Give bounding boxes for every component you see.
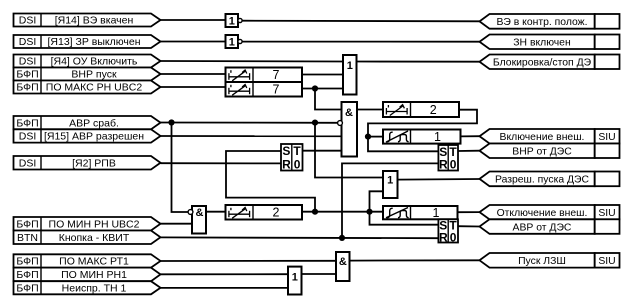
svg-text:ПО МАКС РН UBC2: ПО МАКС РН UBC2 bbox=[46, 82, 143, 94]
junction node T3-out bbox=[365, 134, 371, 140]
input flag I2: DSI [Я13] ЗР выключен bbox=[14, 35, 161, 48]
wire Неиспр. ТН1 to OR D7 bbox=[161, 287, 289, 289]
input flag I10: BTN Кнопка - КВИТ bbox=[14, 231, 161, 245]
wire T4-out down to DT3 S bbox=[370, 212, 439, 225]
input flag I4: БФП ВНР пуск bbox=[14, 68, 161, 81]
wire DT2 out to AND D4 in4 bbox=[303, 150, 342, 152]
wire OR D6 to Разреш. пуска ДЭС bbox=[398, 178, 480, 181]
svg-text:R: R bbox=[282, 158, 291, 172]
svg-text:БФП: БФП bbox=[16, 117, 38, 129]
wire АВР сраб. to OR D6 in1 bbox=[315, 123, 383, 178]
timer block T1: t=7 bbox=[226, 68, 303, 83]
input flag I9: БФП ПО МИН РН UBC2 bbox=[14, 217, 161, 231]
junction node T4-out B bbox=[366, 209, 372, 215]
svg-text:АВР сраб.: АВР сраб. bbox=[69, 117, 119, 129]
wire T3 output loop to pulse P1 bbox=[368, 110, 477, 152]
timer block T4: t=2 bbox=[226, 205, 303, 220]
OR gate D6 bbox=[383, 171, 398, 198]
input flag I7: DSI [Я15] АВР разрешен bbox=[14, 129, 161, 142]
svg-text:S: S bbox=[282, 144, 290, 158]
NOT gate D1 bbox=[226, 14, 239, 28]
output flag O7: Отключение внеш. bbox=[480, 205, 620, 219]
wire T4-out up to OR D6 in2 bbox=[370, 191, 384, 211]
svg-text:БФП: БФП bbox=[16, 269, 38, 281]
svg-text:DSI: DSI bbox=[19, 56, 37, 68]
svg-text:[Я15] АВР разрешен: [Я15] АВР разрешен bbox=[44, 131, 144, 143]
svg-text:ПО МИН РН1: ПО МИН РН1 bbox=[61, 269, 127, 281]
svg-text:7: 7 bbox=[273, 68, 280, 82]
wire DT1 out to ВНР от ДЭС bbox=[458, 150, 480, 152]
wire АВР сраб. to AND D4 bubble bbox=[161, 122, 339, 124]
RS flip-flop DT3 bbox=[438, 219, 458, 245]
svg-text:0: 0 bbox=[450, 230, 457, 244]
wire OR1 to Блокировка/стоп ДЭ bbox=[357, 61, 480, 63]
inversion bubble AND D4 inverted input bbox=[338, 121, 343, 126]
svg-text:Включение внеш.: Включение внеш. bbox=[500, 132, 585, 143]
svg-text:БФП: БФП bbox=[16, 69, 38, 81]
svg-text:Блокировка/стоп ДЭ: Блокировка/стоп ДЭ bbox=[493, 58, 592, 69]
junction node T2-out branch bbox=[312, 85, 318, 91]
svg-text:ЗН включен: ЗН включен bbox=[513, 38, 571, 49]
output flag O2: ЗН включен bbox=[480, 35, 620, 50]
svg-text:2: 2 bbox=[430, 103, 437, 117]
input flag I12: БФП ПО МИН РН1 bbox=[14, 268, 161, 282]
svg-text:1: 1 bbox=[229, 37, 235, 49]
svg-text:2: 2 bbox=[273, 206, 280, 220]
svg-text:БФП: БФП bbox=[16, 256, 38, 268]
input flag I8: DSI [Я2] РПВ bbox=[14, 156, 161, 170]
AND gate D4 bbox=[342, 102, 358, 157]
svg-text:0: 0 bbox=[450, 158, 457, 172]
svg-text:SIU: SIU bbox=[598, 208, 615, 219]
wire КВИТ up to DT1 R bbox=[342, 163, 438, 238]
wire OR D7 to AND D8 bbox=[302, 273, 337, 275]
timer block T2: t=7 bbox=[226, 82, 303, 97]
inversion bubble NOT D2 output bbox=[238, 39, 242, 43]
wire ПО МАКС РТ1 to AND D8 bbox=[161, 260, 337, 262]
wire DT3 out to АВР от ДЭС bbox=[458, 225, 480, 227]
wire T3-out to P1 input bbox=[368, 136, 383, 138]
svg-text:1: 1 bbox=[292, 272, 298, 284]
svg-text:DSI: DSI bbox=[19, 131, 37, 143]
wire T2-out down to AND D4 in1 bbox=[315, 89, 342, 110]
pulse former block P1: 1 bbox=[383, 130, 461, 145]
wire NOT1 to ВЭ в контр.полож. bbox=[242, 20, 479, 23]
wire ПО МИН РН1 to OR D7 bbox=[161, 273, 289, 275]
svg-text:БФП: БФП bbox=[16, 282, 38, 294]
input flag I1: DSI [Я14] ВЭ вкачен bbox=[14, 14, 161, 27]
svg-text:[Я4] ОУ Включить: [Я4] ОУ Включить bbox=[51, 56, 138, 68]
wire ПО МИН РН UBC2 to AND D5 bbox=[161, 223, 193, 225]
output flag O4: Включение внеш. bbox=[480, 129, 620, 144]
input flag I3: DSI [Я4] ОУ Включить bbox=[14, 55, 161, 68]
wire AND D5 to timer T4 bbox=[206, 211, 226, 213]
svg-text:[Я2] РПВ: [Я2] РПВ bbox=[72, 157, 116, 169]
svg-text:DSI: DSI bbox=[19, 157, 37, 169]
svg-text:АВР от ДЭС: АВР от ДЭС bbox=[513, 222, 572, 233]
wire T2 to OR1 bbox=[302, 88, 343, 90]
output flag O6: Разреш. пуска ДЭС bbox=[480, 172, 620, 187]
junction node АВР сраб. A bbox=[168, 119, 174, 125]
OR gate D3 bbox=[343, 55, 357, 95]
input flag I6: БФП АВР сраб. bbox=[14, 116, 161, 129]
svg-text:Отключение внеш.: Отключение внеш. bbox=[497, 208, 588, 219]
OR gate D7 bbox=[288, 267, 302, 295]
wire T1 to OR1 bbox=[302, 74, 343, 76]
inversion bubble AND D5 inverted input bbox=[188, 210, 193, 215]
RS flip-flop DT2 bbox=[281, 144, 303, 172]
wire ВНР пуск to timer T1 bbox=[161, 73, 226, 75]
svg-text:R: R bbox=[439, 230, 448, 244]
svg-text:&: & bbox=[345, 107, 353, 119]
svg-text:[Я13] ЗР выключен: [Я13] ЗР выключен bbox=[48, 36, 141, 48]
wire DT2 S net bbox=[226, 151, 315, 212]
svg-text:7: 7 bbox=[273, 83, 280, 97]
wire AND D4 to timer T3 bbox=[357, 109, 383, 111]
AND gate D5 bbox=[192, 206, 206, 234]
wire Кнопка-КВИТ to DT3 R bbox=[161, 236, 439, 239]
wire АВР разрешен to AND D4 in3 bbox=[161, 135, 342, 137]
wire ВЭ вкачен to NOT1 bbox=[161, 19, 226, 21]
NOT gate D2 bbox=[226, 35, 239, 49]
wire T4 out to pulse P2 bbox=[302, 211, 383, 213]
svg-text:ВНР от ДЭС: ВНР от ДЭС bbox=[512, 147, 572, 158]
svg-text:ВЭ в контр. полож.: ВЭ в контр. полож. bbox=[496, 17, 587, 28]
wire ЗР выключен to NOT2 bbox=[161, 41, 226, 43]
inversion bubble NOT D1 output bbox=[238, 18, 242, 22]
svg-text:[Я14] ВЭ вкачен: [Я14] ВЭ вкачен bbox=[55, 15, 134, 27]
svg-text:DSI: DSI bbox=[19, 15, 37, 27]
input flag I5: БФП ПО МАКС РН UBC2 bbox=[14, 81, 161, 94]
wire ОУ Включить to OR1 bbox=[161, 60, 344, 63]
input flag I11: БФП ПО МАКС РТ1 bbox=[14, 254, 161, 267]
pulse former block P2: 1 bbox=[383, 206, 458, 220]
svg-text:Кнопка - КВИТ: Кнопка - КВИТ bbox=[59, 232, 130, 244]
junction node T4-out A bbox=[312, 209, 318, 215]
wire РПВ to DT2 R input bbox=[161, 162, 282, 164]
svg-text:БФП: БФП bbox=[16, 218, 38, 230]
svg-text:SIU: SIU bbox=[598, 132, 615, 143]
svg-text:T: T bbox=[293, 144, 301, 158]
svg-text:DSI: DSI bbox=[19, 36, 37, 48]
output flag O5: ВНР от ДЭС bbox=[480, 144, 620, 159]
output flag O8: АВР от ДЭС bbox=[480, 219, 620, 234]
wire AND D8 to Пуск ЛЗШ bbox=[350, 259, 480, 261]
svg-text:Пуск ЛЗШ: Пуск ЛЗШ bbox=[518, 256, 566, 267]
svg-text:BTN: BTN bbox=[17, 232, 38, 244]
svg-text:&: & bbox=[196, 207, 204, 219]
svg-text:1: 1 bbox=[387, 174, 393, 186]
wire P1 to Включение внеш. bbox=[461, 135, 480, 137]
svg-text:ВНР пуск: ВНР пуск bbox=[71, 69, 117, 81]
input flag I13: БФП Неиспр. ТН 1 bbox=[14, 281, 161, 294]
output flag O9: Пуск ЛЗШ bbox=[480, 253, 620, 268]
svg-text:R: R bbox=[439, 158, 448, 172]
wire NOT2 to ЗН включен bbox=[242, 41, 479, 43]
svg-text:1: 1 bbox=[434, 130, 441, 144]
svg-text:1: 1 bbox=[347, 60, 353, 72]
junction node КВИТ branch bbox=[339, 235, 345, 241]
svg-text:Разреш. пуска ДЭС: Разреш. пуска ДЭС bbox=[495, 175, 590, 186]
output flag O1: ВЭ в контр. полож. bbox=[480, 14, 620, 29]
svg-text:Неиспр. ТН 1: Неиспр. ТН 1 bbox=[62, 282, 127, 294]
svg-text:&: & bbox=[339, 256, 347, 268]
svg-text:ПО МАКС РТ1: ПО МАКС РТ1 bbox=[59, 256, 129, 268]
AND gate D8 bbox=[336, 252, 350, 281]
svg-text:SIU: SIU bbox=[598, 256, 615, 267]
RS flip-flop DT1 bbox=[438, 145, 458, 172]
junction node АВР сраб. B bbox=[312, 120, 318, 126]
wire P2 to Отключение внеш. bbox=[458, 211, 480, 213]
svg-text:БФП: БФП bbox=[16, 82, 38, 94]
wire АВР сраб. down-left branch bbox=[172, 123, 189, 213]
wire ПО МАКС РН UBC2 to timer T2 bbox=[161, 86, 226, 88]
svg-text:1: 1 bbox=[229, 16, 235, 28]
output flag O3: Блокировка/стоп ДЭ bbox=[480, 55, 620, 70]
timer block T3: t=2 bbox=[383, 102, 459, 117]
svg-text:0: 0 bbox=[294, 158, 301, 172]
svg-text:ПО МИН РН UBC2: ПО МИН РН UBC2 bbox=[49, 218, 140, 230]
